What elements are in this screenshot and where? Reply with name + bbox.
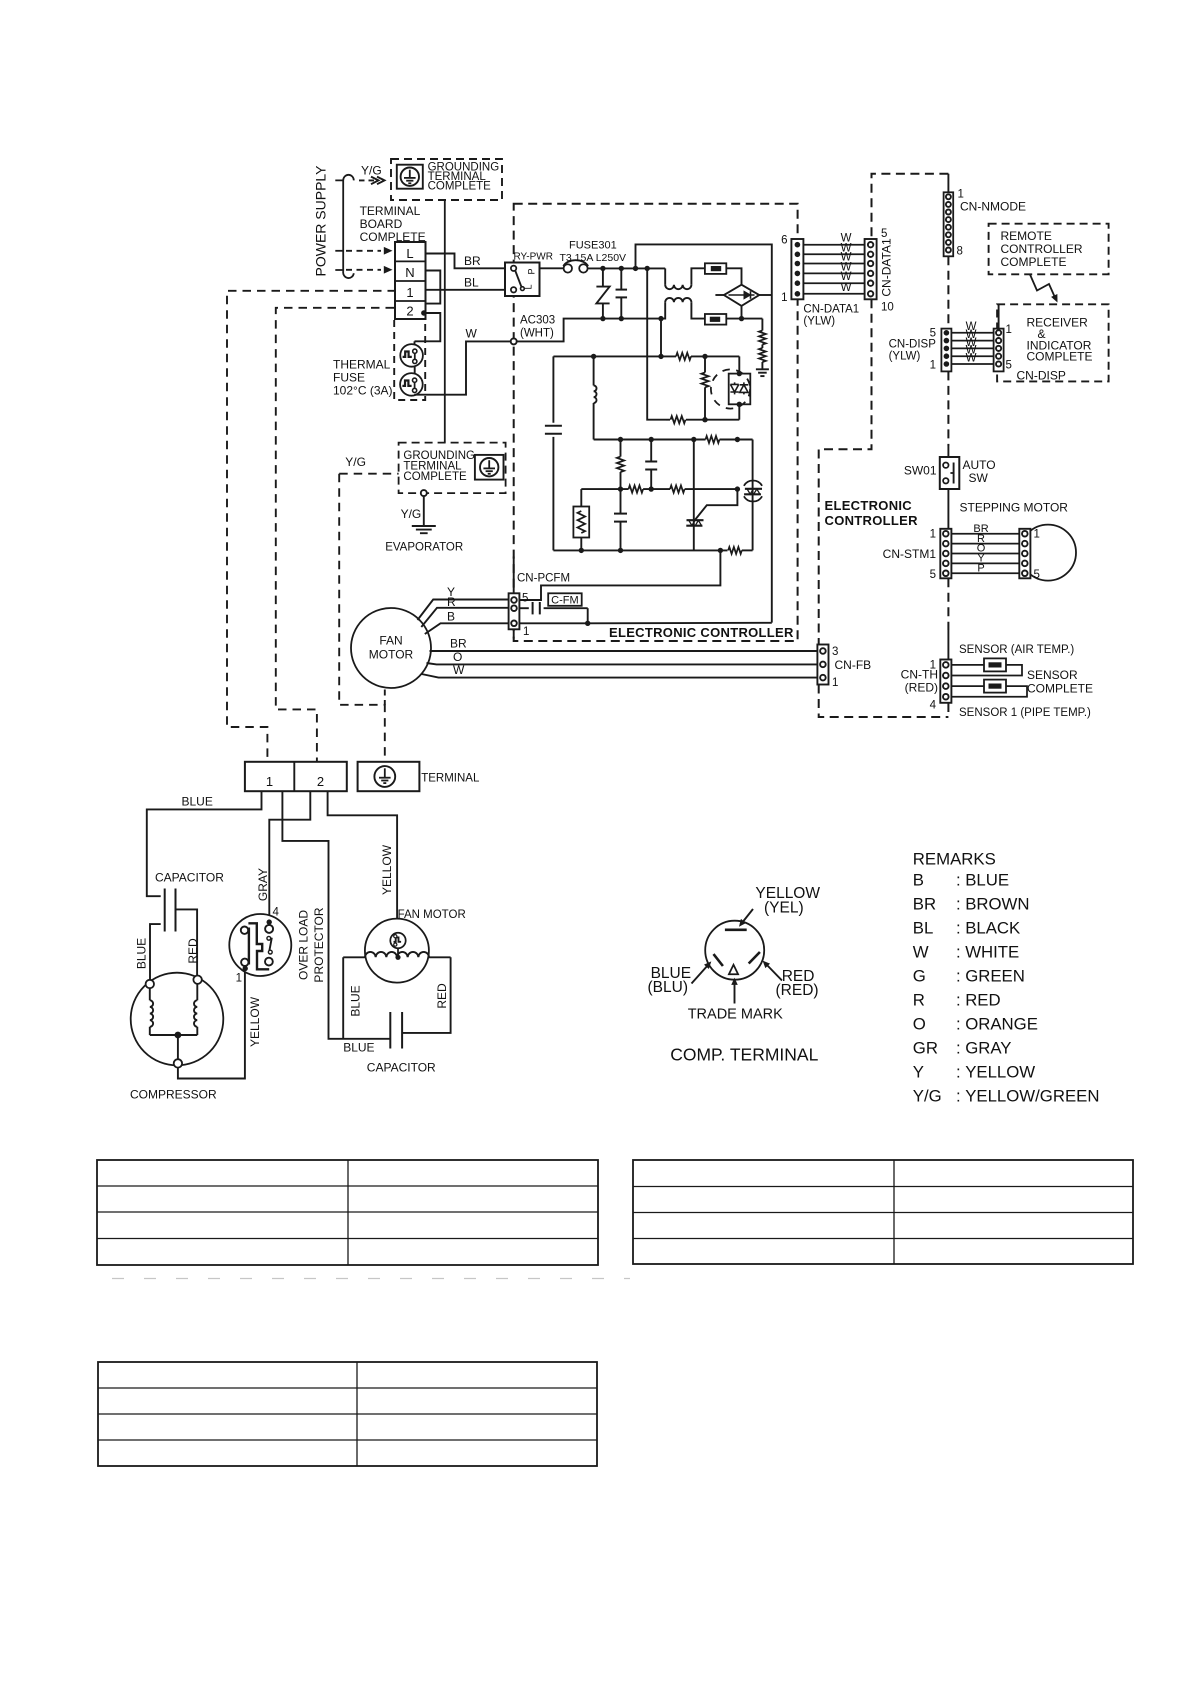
svg-text:BROWN: BROWN	[965, 894, 1029, 913]
svg-text:CAPACITOR: CAPACITOR	[155, 871, 224, 885]
triac main branch x693	[693, 440, 695, 551]
svg-text:(YEL): (YEL)	[764, 899, 804, 916]
junction varistor top	[600, 266, 605, 271]
wire rail right side down	[771, 295, 773, 623]
electronic controller dashed box (display side)	[872, 174, 949, 239]
wire SW01 to CN-STM1	[947, 489, 949, 529]
svg-text:4: 4	[930, 700, 937, 712]
connector CN-DISP (YLW) board side	[941, 329, 951, 372]
svg-text:1: 1	[781, 292, 787, 304]
svg-text:GR: GR	[913, 1039, 938, 1058]
svg-text:1: 1	[930, 360, 936, 372]
svg-text::: :	[956, 894, 961, 913]
svg-text::: :	[956, 1087, 961, 1106]
bridge right stub to rail	[759, 294, 772, 296]
junction bus-B x737	[735, 486, 740, 491]
wire R-bus to photocoupler top	[738, 356, 740, 373]
wire BR fan to CN-FB	[430, 650, 818, 652]
svg-text:(YLW): (YLW)	[803, 316, 835, 328]
dashed arrow Y/G to grounding terminal	[359, 179, 377, 181]
connector CN-DATA1 harness side	[865, 239, 877, 299]
arrow trade mark	[734, 982, 736, 1004]
svg-text:CAPACITOR: CAPACITOR	[367, 1061, 436, 1075]
wire BLUE terminal1 to compressor capacitor	[147, 791, 262, 896]
overload protector bimetal element	[248, 923, 269, 969]
arrow red	[766, 964, 783, 981]
triac symbol	[687, 519, 704, 521]
sensor air temp loop	[951, 665, 1022, 676]
svg-text:1: 1	[266, 774, 273, 789]
wire Y fan to CN-PCFM	[418, 600, 509, 621]
wire node to evaporator ground	[423, 496, 425, 526]
svg-text:TERMINAL: TERMINAL	[421, 773, 480, 785]
connector stepping motor side	[1019, 529, 1030, 579]
svg-text:SW01: SW01	[904, 464, 937, 478]
table 3 (bottom left)	[98, 1362, 597, 1466]
svg-text:2: 2	[317, 774, 324, 789]
junction bus-B x620	[618, 486, 623, 491]
svg-text:L: L	[406, 246, 413, 261]
ground (evaporator)	[412, 525, 436, 527]
svg-text:REMARKS: REMARKS	[913, 850, 996, 869]
R-bus wire y356 right part	[691, 355, 739, 357]
wire L to relay RY-PWR (BR)	[426, 254, 511, 269]
svg-text:4: 4	[273, 907, 280, 919]
junction compressor common	[175, 1032, 182, 1039]
arrow blue	[692, 965, 709, 984]
connector CN-DISP receiver side	[994, 329, 1004, 372]
capacitor C-FM symbol	[519, 607, 529, 609]
svg-text:ELECTRONIC: ELECTRONIC	[825, 498, 913, 513]
junction bus-A x651	[649, 437, 654, 442]
svg-text:CN-DISP: CN-DISP	[1017, 369, 1066, 383]
svg-text:WHITE: WHITE	[965, 942, 1019, 961]
svg-text:(RED): (RED)	[905, 681, 938, 695]
svg-text:BR: BR	[913, 894, 936, 913]
wire ground from top grounding box to evaporator grounding box	[444, 200, 446, 443]
wire receiver box to CN-DISP connector	[998, 304, 1000, 328]
svg-text::: :	[956, 918, 961, 937]
table 1 (top left)	[97, 1160, 598, 1265]
svg-text:OVER LOAD: OVER LOAD	[296, 910, 310, 980]
outdoor ground terminal box	[358, 762, 420, 791]
svg-text:RED: RED	[435, 983, 449, 1009]
svg-text:(BLU): (BLU)	[648, 979, 688, 996]
grounding terminal complete box (evaporator)	[399, 443, 506, 494]
junction x705 y419	[702, 417, 707, 422]
wire capacitor to compressor left terminal	[150, 924, 161, 980]
junction B wire	[585, 621, 590, 626]
wire W thermal fuse to AC303	[414, 341, 511, 394]
wire relay to fuse FUSE301	[540, 267, 564, 269]
wire fuse to choke (main live wire)	[588, 267, 665, 269]
thermal fuse 1	[400, 344, 423, 367]
wires stepping motor BR R O Y P	[951, 533, 1019, 535]
svg-text:STEPPING MOTOR: STEPPING MOTOR	[960, 501, 1069, 515]
svg-text:Y/G: Y/G	[361, 164, 382, 178]
bridge left stub	[715, 294, 724, 296]
svg-text:(YLW): (YLW)	[889, 351, 921, 363]
svg-text:AUTO: AUTO	[963, 458, 996, 472]
svg-text:CN-FB: CN-FB	[835, 658, 872, 672]
compressor winding right	[196, 984, 198, 1000]
ground symbol in evaporator grounding box	[475, 455, 504, 480]
relay pin bottom	[511, 287, 516, 292]
svg-text:CN-NMODE: CN-NMODE	[960, 200, 1026, 214]
svg-text:1: 1	[1034, 529, 1040, 541]
svg-text:ORANGE: ORANGE	[965, 1014, 1038, 1033]
junction bus-A x693	[691, 437, 696, 442]
svg-text:YELLOW: YELLOW	[248, 996, 262, 1047]
svg-text:T3.15A L250V: T3.15A L250V	[560, 252, 627, 264]
svg-text:L: L	[524, 284, 534, 289]
compressor winding common wire	[150, 1034, 198, 1036]
svg-text:N: N	[405, 265, 414, 280]
svg-text::: :	[956, 990, 961, 1009]
wire common to bottom terminal	[177, 1035, 179, 1059]
svg-text:B: B	[447, 609, 455, 623]
wire varistor top	[602, 268, 604, 286]
C-FM box	[548, 593, 582, 606]
svg-text:SENSOR (AIR TEMP.): SENSOR (AIR TEMP.)	[959, 644, 1074, 656]
wire link Z-bus to R-bus	[660, 319, 662, 357]
connector CN-STM1	[940, 529, 951, 579]
capacitor across line	[620, 268, 622, 289]
fan motor thermal protector	[390, 933, 405, 948]
junction bottom bus x620	[618, 548, 623, 553]
wire jumper N to 2	[426, 271, 441, 304]
svg-text:P: P	[527, 268, 537, 274]
svg-text:COMPLETE: COMPLETE	[1001, 255, 1067, 269]
junction bus-A x620	[618, 437, 623, 442]
dashed arrow into terminal L	[335, 250, 343, 252]
compressor terminal left	[146, 980, 154, 988]
svg-text:RED: RED	[186, 938, 200, 964]
svg-text:YELLOW/GREEN: YELLOW/GREEN	[965, 1087, 1099, 1106]
svg-text:CN-DISP: CN-DISP	[889, 339, 937, 351]
overload protector right contact chain	[265, 925, 273, 933]
svg-text:BR: BR	[464, 254, 481, 268]
connector CN-TH (RED)	[940, 660, 951, 703]
left branch cap of inner circuit	[552, 356, 554, 422]
svg-text:COMP. TERMINAL: COMP. TERMINAL	[670, 1045, 818, 1065]
connector CN-PCFM	[509, 593, 520, 629]
junction cap top	[619, 266, 624, 271]
arrow yellow	[742, 909, 754, 924]
photo-triac input branch x705	[704, 356, 706, 372]
svg-text:GRAY: GRAY	[965, 1039, 1011, 1058]
thermistor sensor 2 (pipe)	[984, 680, 1006, 693]
svg-text:CONTROLLER: CONTROLLER	[1001, 242, 1083, 256]
svg-text:1: 1	[523, 626, 529, 638]
wire top rail corner	[636, 244, 772, 295]
fuse (bottom) box	[705, 314, 726, 325]
svg-text:BLUE: BLUE	[965, 870, 1009, 889]
photocoupler diode right (up)	[740, 382, 748, 394]
comp terminal trade mark triangle	[729, 965, 738, 974]
wire B fan to CN-PCFM	[425, 623, 509, 634]
wire GRAY terminal2 to overload protector	[269, 791, 310, 921]
junction long vertical	[645, 266, 650, 271]
solid segment of box edge through CN-PCFM	[513, 557, 515, 594]
svg-text:5: 5	[881, 228, 887, 240]
Z-bus wire to choke bottom winding	[599, 302, 666, 318]
wire to SW01	[947, 446, 949, 457]
inductor branch x593	[593, 356, 595, 385]
wire between thermal fuses	[414, 367, 416, 374]
svg-text:REMOTE: REMOTE	[1001, 229, 1052, 243]
svg-text:W: W	[841, 282, 852, 294]
comp terminal circle	[705, 921, 764, 980]
svg-text:1: 1	[236, 973, 242, 985]
bus-A wire y439	[594, 439, 706, 441]
svg-text:CN-DATA1: CN-DATA1	[880, 238, 894, 297]
fuse (top) box	[705, 263, 726, 274]
svg-text:RECEIVER: RECEIVER	[1027, 316, 1089, 330]
connector CN-DATA1 (YLW) board side	[791, 239, 803, 299]
svg-text:RY-PWR: RY-PWR	[514, 252, 553, 263]
connector CN-NMODE	[944, 192, 954, 256]
bus-B wire y489	[581, 488, 628, 490]
wire W fan to CN-FB	[422, 674, 818, 678]
svg-text:ELECTRONIC CONTROLLER: ELECTRONIC CONTROLLER	[609, 625, 794, 640]
wire terminal2 to thermal fuse	[415, 313, 441, 341]
svg-text:3: 3	[832, 646, 838, 658]
svg-text:COMPLETE: COMPLETE	[403, 471, 467, 483]
svg-text:1: 1	[832, 677, 838, 689]
receiver and indicator complete dashed box	[997, 304, 1109, 381]
svg-text:P: P	[977, 563, 984, 575]
svg-text:TRADE MARK: TRADE MARK	[688, 1007, 783, 1023]
svg-text:YELLOW: YELLOW	[380, 844, 394, 895]
wire fuse to bridge top	[726, 268, 741, 284]
svg-text:W: W	[913, 942, 929, 961]
svg-text:1: 1	[930, 529, 936, 541]
wire YELLOW terminal2 to fan motor	[328, 791, 398, 933]
wire CN-STM1 to CN-TH solid part	[947, 630, 949, 660]
wire bottom fuse to bridge bottom and ground resistor	[726, 318, 762, 320]
svg-text:CN-STM1: CN-STM1	[883, 547, 937, 561]
fan motor circle (indoor)	[351, 608, 431, 688]
relay RY-PWR box	[505, 263, 540, 297]
junction bottom bus x720	[718, 548, 723, 553]
svg-text:PROTECTOR: PROTECTOR	[312, 907, 326, 982]
R-bus wire y356 left part	[553, 355, 676, 357]
wire terminal1 to fan capacitor	[282, 791, 389, 1039]
svg-text:Y/G: Y/G	[345, 455, 366, 469]
junction bus-A x737	[735, 437, 740, 442]
svg-text:5: 5	[1034, 569, 1040, 581]
svg-text:COMPLETE: COMPLETE	[1027, 682, 1093, 696]
wire bridge bottom stub	[741, 306, 743, 319]
svg-text::: :	[956, 1014, 961, 1033]
wire O fan to CN-FB	[427, 663, 818, 664]
svg-text:W: W	[966, 352, 977, 364]
svg-text:6: 6	[781, 235, 787, 247]
wire C-FM to B wire junction	[587, 608, 589, 623]
svg-text:FUSE: FUSE	[333, 371, 365, 385]
svg-text:1: 1	[1006, 324, 1012, 336]
wire below CN-TH	[947, 702, 949, 704]
svg-text:BLUE: BLUE	[134, 938, 148, 969]
svg-text:TERMINAL: TERMINAL	[360, 204, 421, 218]
svg-text:BR: BR	[450, 637, 467, 651]
dashed wire Y/G to bottom terminal	[339, 473, 398, 475]
svg-text:2: 2	[406, 304, 413, 319]
wire capacitor to compressor right terminal	[176, 909, 198, 975]
resistor chain to ground	[761, 319, 763, 331]
junction R-bus left branch	[591, 354, 596, 359]
table 2 (top right)	[633, 1160, 1133, 1264]
remote controller complete dashed box	[989, 224, 1109, 275]
svg-text::: :	[956, 1039, 961, 1058]
fan capacitor	[389, 1012, 391, 1049]
svg-text:BL: BL	[913, 918, 934, 937]
compressor terminal bottom	[174, 1059, 182, 1067]
thermal fuse 2	[400, 373, 423, 396]
svg-text:GREEN: GREEN	[965, 966, 1025, 985]
compressor winding left	[149, 988, 151, 1000]
thermal fuse dashed box	[394, 319, 425, 400]
box2 right edge dashed segments	[947, 256, 949, 328]
svg-text:Y/G: Y/G	[401, 507, 422, 521]
junction bridge bottom	[739, 316, 744, 321]
svg-text:BLACK: BLACK	[965, 918, 1020, 937]
wire varistor bottom	[602, 303, 604, 318]
svg-text:EVAPORATOR: EVAPORATOR	[385, 541, 463, 553]
ground (bridge filter)	[756, 368, 769, 370]
resistor x620 vertical	[620, 440, 622, 457]
wire protector to winding	[397, 948, 399, 957]
overload protector pin 1	[243, 966, 248, 971]
svg-text:AC303: AC303	[520, 315, 555, 327]
grounding terminal complete box (top)	[391, 159, 502, 200]
dashed line from outdoor terminal 2	[276, 308, 394, 762]
overload protector circle	[229, 914, 291, 976]
svg-text:(RED): (RED)	[776, 982, 819, 999]
wire compressor to overload protector pin1 (YELLOW)	[178, 971, 245, 1078]
svg-text:R: R	[447, 595, 456, 609]
thermistor sensor 1 (air)	[984, 658, 1006, 671]
svg-text:Y/G: Y/G	[913, 1087, 942, 1106]
outdoor terminal block 1 2	[245, 762, 347, 791]
switch SW01 box	[940, 457, 960, 489]
svg-text:POWER SUPPLY: POWER SUPPLY	[313, 165, 329, 277]
svg-text:5: 5	[1006, 360, 1012, 372]
svg-text::: :	[956, 1063, 961, 1082]
svg-text:BOARD: BOARD	[360, 217, 403, 231]
svg-text:BLUE: BLUE	[348, 985, 362, 1016]
fan motor circle (outdoor)	[365, 919, 429, 983]
svg-text:5: 5	[930, 569, 936, 581]
junction varistor bottom	[600, 316, 605, 321]
sensor pipe temp loop	[951, 686, 1027, 697]
svg-text:COMPLETE: COMPLETE	[428, 181, 492, 193]
svg-text:COMPLETE: COMPLETE	[1027, 350, 1093, 364]
wires W x6 between CN-DATA1 connectors	[803, 244, 864, 246]
gate bus wire y419 left part	[666, 419, 670, 421]
resistor on R-bus	[676, 353, 691, 360]
diode bridge	[724, 285, 759, 306]
svg-text:BL: BL	[464, 276, 479, 290]
wire R fan to CN-PCFM	[421, 608, 508, 627]
capacitor x620 lower	[620, 489, 622, 513]
dashed line from outdoor terminal 1	[227, 291, 396, 762]
wire CN-NMODE to box corner	[947, 174, 949, 193]
wire photocoupler bottom to gate bus	[738, 404, 740, 419]
wire long vertical from live wire	[647, 268, 666, 419]
choke winding bottom	[665, 298, 691, 302]
junction fan winding	[395, 955, 400, 960]
fuse FUSE301 symbol	[564, 264, 572, 272]
photocoupler dashed circle	[711, 369, 750, 408]
ground symbol in grounding terminal box	[397, 165, 423, 189]
comp terminal blue pin mark	[714, 954, 723, 966]
svg-text:COMPRESSOR: COMPRESSOR	[130, 1088, 217, 1102]
svg-text:YELLOW: YELLOW	[965, 1063, 1035, 1082]
svg-text:FAN MOTOR: FAN MOTOR	[398, 909, 466, 921]
wire 1 to relay (BL)	[426, 289, 511, 291]
svg-text::: :	[956, 942, 961, 961]
power-supply cable symbol (loop bracket)	[335, 175, 354, 278]
junction cap bottom	[619, 316, 624, 321]
svg-text:CN-DATA1: CN-DATA1	[803, 304, 859, 316]
svg-text:8: 8	[957, 246, 963, 258]
fan motor winding	[343, 956, 365, 958]
ground symbol (outdoor terminal)	[374, 766, 395, 787]
comp terminal red pin mark	[749, 952, 760, 964]
svg-text:RED: RED	[965, 990, 1000, 1009]
svg-text:THERMAL: THERMAL	[333, 358, 391, 372]
overload protector pin 4	[267, 919, 272, 924]
junction photocoupler top	[737, 371, 742, 376]
compressor circle	[131, 973, 224, 1066]
svg-text:FUSE301: FUSE301	[569, 240, 617, 252]
svg-text:1: 1	[406, 285, 413, 300]
SW01 contacts	[943, 463, 948, 468]
capacitor x651 vertical	[650, 440, 652, 462]
wire fan RED side	[403, 957, 451, 1033]
junction bottom bus x581	[579, 548, 584, 553]
photocoupler diode left (down)	[730, 382, 738, 394]
electronic controller dashed box (power board)	[514, 204, 798, 641]
svg-text:102°C (3A): 102°C (3A)	[333, 384, 393, 398]
svg-text:BLUE: BLUE	[182, 795, 213, 809]
svg-text::: :	[956, 870, 961, 889]
svg-text:FAN: FAN	[379, 634, 402, 648]
wire thermal fuse top stub	[414, 341, 416, 344]
junction R-bus link	[658, 354, 663, 359]
junction R-bus at x705	[702, 354, 707, 359]
terminal board block L N 1 2	[395, 242, 426, 319]
triac gate wire	[695, 489, 738, 520]
surge absorber symbol on right leg	[752, 440, 754, 551]
svg-text:1: 1	[930, 660, 936, 672]
choke winding top	[664, 268, 666, 284]
junction Z-bus to lower bus link	[658, 316, 663, 321]
svg-text:W: W	[453, 663, 465, 677]
relay pin top	[511, 266, 516, 271]
wire fan BLUE side	[342, 957, 344, 1039]
svg-text:C-FM: C-FM	[551, 594, 579, 606]
comp terminal yellow pin mark	[725, 928, 747, 931]
svg-text:SW: SW	[969, 471, 989, 485]
photocoupler diode pair box	[729, 374, 751, 405]
svg-text::: :	[956, 966, 961, 985]
junction photocoupler bottom	[737, 402, 742, 407]
varistor Z symbol	[596, 287, 609, 304]
node AC303 (WHT) open circle	[511, 338, 517, 344]
